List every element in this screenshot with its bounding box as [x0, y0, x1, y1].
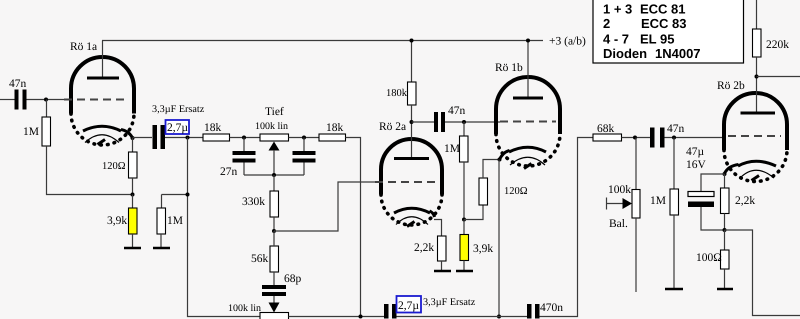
resistor 180k anode 2a [386, 41, 416, 123]
svg-text:1 + 3: 1 + 3 [603, 2, 632, 17]
node cathode 1a [131, 136, 135, 140]
potentiometer Bal 100k [607, 138, 641, 293]
node E bias 2a [462, 218, 466, 222]
wire node D to grid 2a [274, 182, 381, 231]
svg-text:2: 2 [603, 16, 610, 31]
svg-text:180k: 180k [386, 88, 408, 99]
wire bias to 1M2 [162, 194, 188, 196]
ground 2,2k 2a [434, 270, 451, 273]
cathode lead 1a [121, 130, 133, 139]
resistor 18k right [319, 122, 346, 141]
tube U1 Rö 1a [70, 41, 134, 145]
resistor 2,2k cathode 2a [414, 236, 446, 270]
heater 1b [510, 157, 545, 165]
capacitor 470n [527, 302, 563, 319]
svg-text:Tief: Tief [265, 106, 284, 118]
grid 1a dashed [64, 99, 126, 101]
svg-text:EL 95: EL 95 [640, 32, 674, 47]
heater 1a [85, 135, 119, 143]
resistor 120R cathode 1a [102, 138, 137, 194]
svg-text:18k: 18k [326, 122, 344, 134]
svg-text:3,9k: 3,9k [107, 215, 127, 227]
resistor 1M grid 2b [650, 138, 679, 289]
svg-text:100k lin: 100k lin [255, 121, 288, 132]
resistor 220k anode 2b [753, 0, 790, 77]
svg-text:120Ω: 120Ω [504, 186, 528, 197]
wiper arrow bottom pot [269, 296, 280, 313]
svg-text:220k: 220k [766, 39, 789, 51]
wire 18k to pot [230, 137, 261, 139]
ground 1M 2b [665, 288, 683, 291]
svg-text:470n: 470n [540, 302, 563, 314]
svg-text:2,7µ: 2,7µ [398, 300, 419, 312]
ground 100R [717, 288, 733, 291]
tube U3 Rö 1b [495, 62, 560, 166]
node G [672, 136, 676, 140]
potentiometer Tief 100k lin [255, 106, 289, 175]
svg-text:330k: 330k [242, 196, 265, 208]
resistor 1M grid leak [23, 100, 51, 147]
svg-text:ECC 81: ECC 81 [640, 2, 686, 17]
wire anode 2a [411, 122, 413, 158]
node B [242, 136, 246, 140]
node F [633, 136, 637, 140]
wire bottom mid [397, 316, 528, 318]
wire anode 2b [756, 77, 758, 113]
svg-text:100Ω: 100Ω [696, 252, 722, 264]
node rail 180k [410, 39, 414, 43]
potentiometer 100k lin bottom [228, 303, 289, 319]
node wiper [272, 173, 276, 177]
node A2 [186, 193, 190, 197]
anode plate 1a [87, 77, 119, 80]
node cathode 1b [498, 158, 502, 162]
resistor 56k [251, 231, 279, 272]
resistor 330k [242, 175, 279, 231]
ground 3,9k 2a [456, 270, 473, 273]
wire anode 1b to rail [527, 41, 529, 98]
svg-text:68p: 68p [284, 273, 302, 285]
anode plate 2a [394, 157, 429, 160]
svg-text:100k lin: 100k lin [228, 303, 261, 314]
wire cap to 18k [165, 137, 203, 139]
capacitor 2,7u second (3,3uF Ersatz) [384, 296, 476, 319]
heater 2a [396, 217, 428, 225]
node bias 1a [131, 193, 135, 197]
wire 470n up to 68k [540, 138, 594, 317]
wire cap to grid [27, 99, 65, 101]
grid 2b dashed [728, 135, 781, 137]
resistor 3,9k cathode 1a [107, 195, 137, 248]
cathode lead 2b [725, 165, 739, 174]
svg-text:47n: 47n [9, 78, 27, 90]
heater tick 1b [524, 164, 532, 169]
resistor 2,2k cathode 2b [721, 174, 756, 230]
svg-text:56k: 56k [251, 253, 269, 265]
wire input [0, 99, 15, 101]
capacitor 27n right [293, 138, 316, 176]
svg-text:47n: 47n [667, 123, 685, 135]
svg-text:Bal.: Bal. [609, 218, 628, 230]
svg-text:4 - 7: 4 - 7 [603, 32, 629, 47]
heater tick 1a [98, 140, 106, 145]
cathode 2b [738, 161, 776, 166]
cathode lead 1b [500, 151, 510, 160]
node C [302, 136, 306, 140]
capacitor 68p [262, 272, 302, 296]
capacitor 47n interstage [412, 105, 466, 132]
wire cathode 1a to cap [133, 137, 153, 139]
wire node A down to bottom rail [188, 138, 261, 317]
svg-text:Rö 1a: Rö 1a [70, 41, 97, 53]
svg-text:3,9k: 3,9k [473, 243, 493, 255]
wire 47n to grid 2b [665, 137, 726, 139]
svg-text:1M: 1M [167, 215, 183, 227]
node +3 (a/b) label [549, 36, 586, 48]
node bottom 360 [359, 315, 363, 319]
svg-text:3,3µF Ersatz: 3,3µF Ersatz [423, 297, 476, 308]
wire anode 2b right [757, 76, 800, 78]
wire 18k right to grid drop [346, 138, 385, 317]
anode plate 1b [513, 97, 543, 100]
node cathode 2b [723, 172, 727, 176]
svg-text:47n: 47n [448, 105, 466, 117]
wire top rail +3 [102, 40, 543, 42]
node grid 1a junction [44, 98, 48, 102]
wire 68k to 47n [622, 137, 651, 139]
svg-text:18k: 18k [204, 122, 222, 134]
svg-text:68k: 68k [597, 123, 615, 135]
svg-text:2,2k: 2,2k [735, 195, 755, 207]
grid 2a dashed [375, 181, 436, 183]
wire pot to 18k right [289, 137, 320, 139]
node grid 1b [462, 120, 466, 124]
svg-text:120Ω: 120Ω [102, 161, 126, 172]
ground 1M feedback [153, 247, 170, 250]
svg-text:1N4007: 1N4007 [655, 46, 701, 61]
svg-text:16V: 16V [686, 159, 707, 171]
node bottom 499 [497, 315, 501, 319]
svg-text:100k: 100k [608, 184, 631, 196]
resistor 1M feedback [157, 195, 183, 248]
cathode 2a [394, 208, 430, 213]
cathode 1a [83, 126, 121, 131]
resistor 100R [696, 230, 729, 288]
svg-text:47µ: 47µ [686, 146, 705, 158]
svg-text:1M: 1M [650, 195, 666, 207]
capacitor 2,7u coupling (3,3uF Ersatz) [152, 104, 205, 149]
wire pot right to 360 [289, 316, 361, 318]
capacitor 47n input [9, 78, 27, 110]
svg-text:2,2k: 2,2k [414, 242, 434, 254]
wire output right [725, 230, 800, 316]
node anode 2b top [755, 75, 759, 79]
legend box tube types [593, 0, 744, 63]
svg-text:3,3µF Ersatz: 3,3µF Ersatz [152, 104, 205, 115]
cathode 1b [509, 147, 546, 152]
wire 1M down to bias node [47, 146, 133, 195]
wire anode 1a to rail [102, 41, 104, 78]
anode plate 2b [741, 112, 776, 115]
svg-text:2,7µ: 2,7µ [167, 122, 188, 134]
svg-text:27n: 27n [220, 166, 238, 178]
capacitor 47u electrolytic [686, 146, 725, 230]
capacitor 27n left [220, 138, 256, 179]
grid 1b dashed [500, 121, 556, 123]
node anode 2a [410, 120, 414, 124]
tube U2 Rö 2a [379, 121, 442, 225]
resistor 18k left [203, 122, 230, 141]
svg-text:1M: 1M [444, 143, 460, 155]
resistor 120R cathode 1b [464, 160, 528, 220]
cathode lead 2a [430, 211, 442, 236]
wire 47n to grid 1b [445, 121, 500, 123]
svg-text:Rö 1b: Rö 1b [495, 62, 523, 74]
svg-text:Rö 2a: Rö 2a [379, 121, 406, 133]
resistor 3,9k yellow 2a [460, 220, 493, 271]
tube U4 Rö 2b [717, 80, 787, 182]
capacitor 47n to 2b [650, 123, 685, 148]
heater tick 2a [407, 222, 415, 227]
svg-text:ECC 83: ECC 83 [641, 16, 687, 31]
node rail 1b [526, 39, 530, 43]
resistor 1M grid 1b [444, 122, 468, 220]
ground 3,9k [124, 247, 141, 250]
resistor 68k [593, 123, 622, 141]
svg-text:Dioden: Dioden [603, 46, 647, 61]
node A tone input [186, 136, 190, 140]
node D 330k/56k [272, 229, 276, 233]
heater tick 2b [752, 176, 760, 181]
wire 27n bottoms joined [244, 174, 304, 176]
svg-text:Rö 2b: Rö 2b [717, 80, 745, 92]
svg-text:1M: 1M [23, 126, 39, 138]
wire cathode 1b down to bottom [498, 160, 500, 317]
heater 2b [740, 170, 774, 178]
node H [723, 228, 727, 232]
svg-text:+3 (a/b): +3 (a/b) [549, 36, 586, 48]
